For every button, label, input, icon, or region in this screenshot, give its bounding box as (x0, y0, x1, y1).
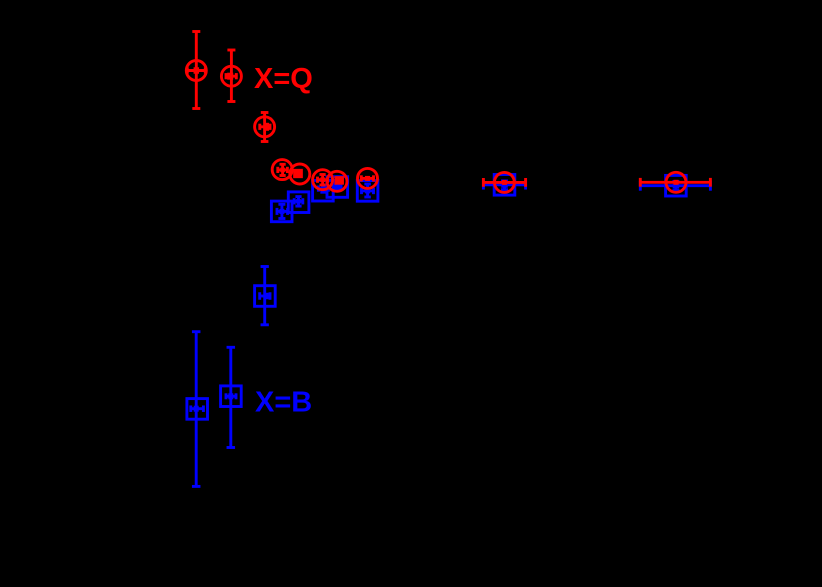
red point R8 with error bars (358, 168, 378, 188)
red point R4 with error bars (272, 160, 292, 180)
red point R5 with error bars (290, 164, 310, 184)
blue point B6 with error bars (255, 267, 276, 325)
blue point B2 with error bars (271, 201, 292, 222)
svg-text:X=Q: X=Q (254, 63, 313, 95)
blue point B5 with error bars (357, 181, 378, 202)
red point R2 with error bars (221, 50, 241, 102)
red point R6 with error bars (313, 170, 333, 190)
red point R7 with error bars (327, 171, 347, 191)
blue point B10 with error bars (640, 175, 710, 196)
blue point B4 with error bars (327, 177, 348, 198)
blue point B8 with error bars (221, 347, 242, 447)
blue point B9 with error bars (483, 175, 525, 196)
blue point B1 with error bars (288, 192, 309, 213)
red point R10 with error bars (640, 172, 710, 192)
blue point B3 with error bars (313, 180, 334, 201)
red point R1 with error bars (186, 32, 206, 109)
svg-text:X=B: X=B (255, 387, 312, 419)
red point R3 with error bars (255, 113, 275, 142)
blue point B7 with error bars (187, 332, 208, 487)
red point R9 with error bars (483, 172, 525, 192)
